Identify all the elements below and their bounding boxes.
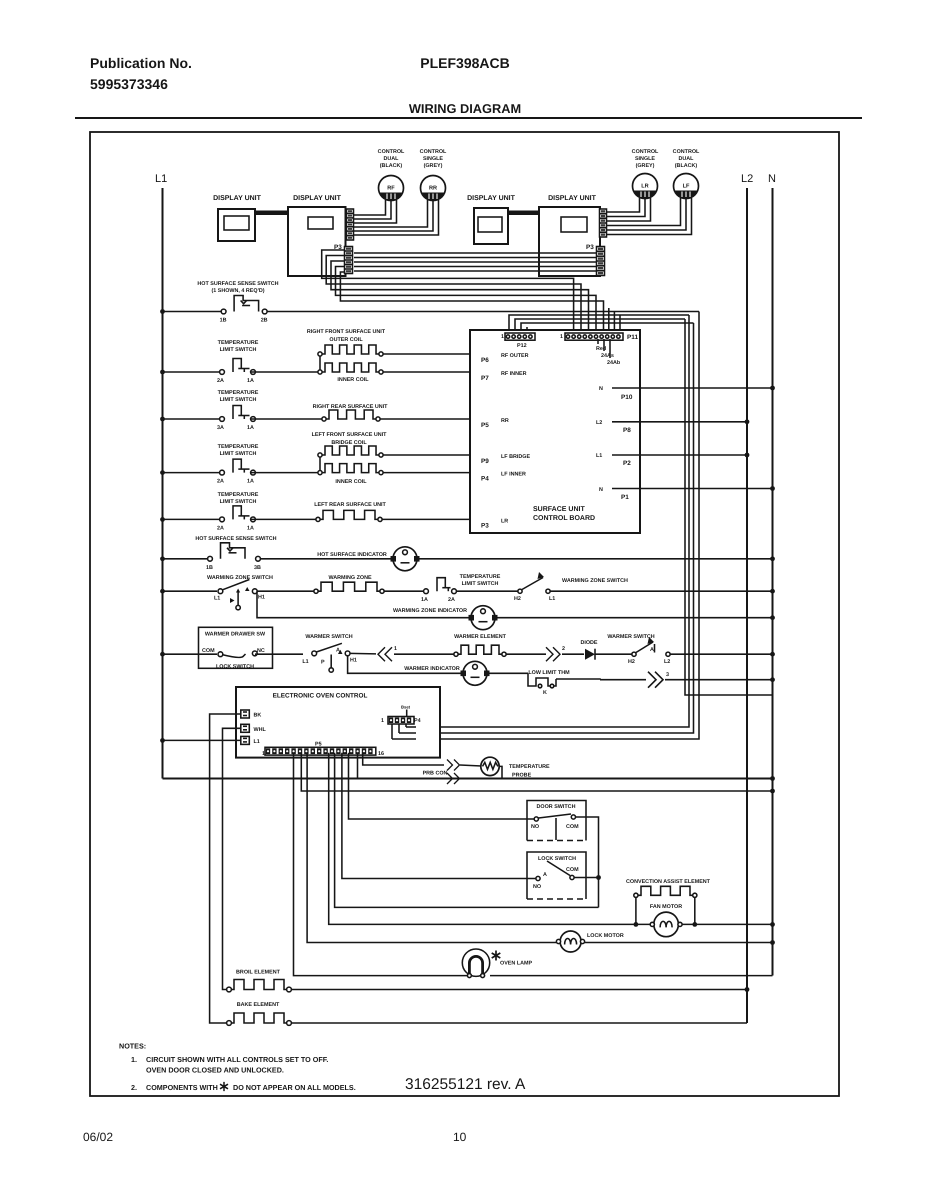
svg-text:PRB CON: PRB CON	[423, 771, 448, 777]
svg-text:L2: L2	[664, 659, 670, 665]
svg-text:(BLACK): (BLACK)	[675, 163, 698, 169]
svg-text:H1: H1	[350, 658, 357, 664]
svg-text:A: A	[650, 647, 654, 653]
svg-text:LF INNER: LF INNER	[501, 472, 526, 478]
svg-text:CONTROL BOARD: CONTROL BOARD	[533, 515, 595, 522]
svg-text:3B: 3B	[254, 565, 261, 571]
svg-text:Publication No.: Publication No.	[90, 55, 192, 71]
svg-text:WARMING ZONE SWITCH: WARMING ZONE SWITCH	[562, 578, 628, 584]
svg-text:NO: NO	[531, 824, 539, 830]
svg-text:NO: NO	[533, 884, 541, 890]
svg-text:P4: P4	[481, 476, 489, 483]
svg-text:2: 2	[562, 646, 565, 652]
svg-text:K: K	[543, 690, 547, 696]
svg-text:N: N	[768, 173, 776, 185]
svg-text:DUAL: DUAL	[679, 156, 695, 162]
svg-text:P11: P11	[627, 334, 638, 341]
svg-text:RF INNER: RF INNER	[501, 371, 527, 377]
svg-text:LR: LR	[501, 518, 508, 524]
svg-text:WARMER SWITCH: WARMER SWITCH	[305, 634, 352, 640]
svg-text:RIGHT REAR SURFACE UNIT: RIGHT REAR SURFACE UNIT	[313, 404, 389, 410]
svg-text:H2: H2	[628, 659, 635, 665]
svg-text:LIMIT SWITCH: LIMIT SWITCH	[462, 581, 499, 587]
svg-text:LR: LR	[641, 184, 648, 190]
svg-text:HOT SURFACE INDICATOR: HOT SURFACE INDICATOR	[317, 552, 387, 558]
svg-text:P8: P8	[623, 427, 631, 434]
svg-text:(1 SHOWN, 4 REQ'D): (1 SHOWN, 4 REQ'D)	[211, 288, 264, 294]
svg-text:BROIL ELEMENT: BROIL ELEMENT	[236, 970, 281, 976]
svg-text:INNER COIL: INNER COIL	[335, 479, 367, 485]
svg-text:P3: P3	[481, 522, 489, 529]
svg-text:L2: L2	[596, 420, 602, 426]
svg-text:P2: P2	[623, 460, 631, 467]
svg-text:SINGLE: SINGLE	[423, 156, 443, 162]
svg-text:WARMER DRAWER SW: WARMER DRAWER SW	[205, 632, 266, 638]
svg-text:BK: BK	[254, 713, 262, 719]
svg-text:TEMPERATURE: TEMPERATURE	[218, 390, 259, 396]
svg-text:H2: H2	[514, 596, 521, 602]
svg-text:L1: L1	[214, 596, 220, 602]
svg-text:1: 1	[262, 751, 265, 757]
svg-text:NOTES:: NOTES:	[119, 1042, 146, 1051]
svg-text:1A: 1A	[247, 425, 254, 431]
svg-text:L1: L1	[549, 596, 555, 602]
svg-text:1A: 1A	[247, 479, 254, 485]
svg-text:CONTROL: CONTROL	[378, 149, 405, 155]
svg-text:BAKE ELEMENT: BAKE ELEMENT	[237, 1002, 280, 1008]
svg-text:BRIDGE COIL: BRIDGE COIL	[331, 440, 367, 446]
svg-text:P3: P3	[586, 244, 594, 251]
svg-text:L1: L1	[254, 739, 260, 745]
svg-text:P9: P9	[481, 458, 489, 465]
svg-text:HOT SURFACE SENSE SWITCH: HOT SURFACE SENSE SWITCH	[195, 536, 276, 542]
svg-text:TEMPERATURE: TEMPERATURE	[218, 492, 259, 498]
svg-text:WARMER ELEMENT: WARMER ELEMENT	[454, 634, 507, 640]
svg-text:2B: 2B	[261, 318, 268, 324]
svg-text:LF: LF	[683, 184, 690, 190]
svg-text:WARMER SWITCH: WARMER SWITCH	[607, 634, 654, 640]
svg-text:24Ab: 24Ab	[607, 360, 621, 366]
svg-text:TEMPERATURE: TEMPERATURE	[460, 574, 501, 580]
svg-text:P12: P12	[517, 343, 527, 349]
svg-text:TEMPERATURE: TEMPERATURE	[509, 764, 550, 770]
svg-text:3: 3	[666, 672, 669, 678]
svg-text:LEFT REAR SURFACE UNIT: LEFT REAR SURFACE UNIT	[314, 502, 386, 508]
svg-text:16: 16	[378, 751, 384, 757]
svg-text:P7: P7	[481, 375, 489, 382]
svg-text:DISPLAY UNIT: DISPLAY UNIT	[293, 195, 342, 202]
svg-text:P1: P1	[621, 494, 629, 501]
svg-text:RIGHT FRONT SURFACE UNIT: RIGHT FRONT SURFACE UNIT	[307, 329, 386, 335]
svg-text:P4: P4	[414, 718, 421, 724]
svg-text:L2: L2	[741, 173, 753, 185]
svg-text:RR: RR	[501, 418, 509, 424]
svg-text:Bset: Bset	[401, 705, 411, 710]
svg-text:DO NOT APPEAR ON ALL MODELS.: DO NOT APPEAR ON ALL MODELS.	[233, 1083, 356, 1092]
svg-text:WARMING ZONE: WARMING ZONE	[328, 575, 372, 581]
svg-text:OVEN LAMP: OVEN LAMP	[500, 961, 532, 967]
svg-text:2A: 2A	[217, 525, 224, 531]
svg-text:5995373346: 5995373346	[90, 76, 168, 92]
svg-text:CONTROL: CONTROL	[420, 149, 447, 155]
svg-text:WIRING DIAGRAM: WIRING DIAGRAM	[409, 101, 521, 116]
svg-text:INNER COIL: INNER COIL	[337, 377, 369, 383]
svg-text:1A: 1A	[247, 525, 254, 531]
svg-text:24As: 24As	[601, 353, 614, 359]
svg-text:1.: 1.	[131, 1055, 137, 1064]
svg-text:P: P	[321, 660, 325, 666]
svg-text:FAN MOTOR: FAN MOTOR	[650, 904, 682, 910]
svg-text:P10: P10	[621, 394, 633, 401]
svg-text:CONVECTION ASSIST ELEMENT: CONVECTION ASSIST ELEMENT	[626, 879, 711, 885]
svg-text:NC: NC	[257, 648, 265, 654]
svg-text:LIMIT SWITCH: LIMIT SWITCH	[220, 397, 257, 403]
svg-text:WARMER INDICATOR: WARMER INDICATOR	[404, 666, 460, 672]
svg-text:H1: H1	[258, 595, 265, 601]
svg-text:1B: 1B	[220, 318, 227, 324]
svg-text:DUAL: DUAL	[384, 156, 400, 162]
svg-text:(BLACK): (BLACK)	[380, 163, 403, 169]
svg-text:CIRCUIT SHOWN WITH ALL CONTROL: CIRCUIT SHOWN WITH ALL CONTROLS SET TO O…	[146, 1055, 328, 1064]
svg-text:RF OUTER: RF OUTER	[501, 353, 529, 359]
svg-text:TEMPERATURE: TEMPERATURE	[218, 444, 259, 450]
svg-text:LOCK SWITCH: LOCK SWITCH	[538, 856, 576, 862]
svg-text:WARMING ZONE INDICATOR: WARMING ZONE INDICATOR	[393, 608, 467, 614]
svg-text:2A: 2A	[217, 479, 224, 485]
svg-text:OUTER COIL: OUTER COIL	[329, 337, 363, 343]
svg-text:CONTROL: CONTROL	[673, 149, 700, 155]
svg-text:(GREY): (GREY)	[636, 163, 655, 169]
svg-text:1: 1	[501, 334, 504, 340]
svg-text:2A: 2A	[217, 378, 224, 384]
svg-text:A: A	[543, 872, 547, 878]
svg-text:DIODE: DIODE	[580, 640, 597, 646]
svg-text:HOT SURFACE SENSE SWITCH: HOT SURFACE SENSE SWITCH	[197, 281, 278, 287]
svg-text:COM: COM	[202, 648, 215, 654]
svg-text:WHL: WHL	[254, 727, 267, 733]
svg-text:P5: P5	[481, 422, 489, 429]
svg-text:1A: 1A	[421, 597, 428, 603]
svg-text:1: 1	[381, 718, 384, 724]
svg-text:PLEF398ACB: PLEF398ACB	[420, 55, 509, 71]
svg-text:06/02: 06/02	[83, 1130, 113, 1144]
svg-text:L1: L1	[155, 173, 167, 185]
svg-text:316255121 rev. A: 316255121 rev. A	[405, 1076, 526, 1093]
svg-text:P6: P6	[481, 357, 489, 364]
svg-text:SURFACE UNIT: SURFACE UNIT	[533, 506, 585, 513]
svg-text:1: 1	[560, 334, 563, 340]
svg-text:LOCK SWITCH: LOCK SWITCH	[216, 664, 254, 670]
svg-text:COMPONENTS WITH: COMPONENTS WITH	[146, 1083, 218, 1092]
svg-text:LOCK MOTOR: LOCK MOTOR	[587, 933, 624, 939]
svg-text:1A: 1A	[247, 378, 254, 384]
svg-text:L1: L1	[302, 659, 308, 665]
svg-text:1: 1	[394, 646, 397, 652]
svg-text:LF BRIDGE: LF BRIDGE	[501, 454, 530, 460]
svg-text:DISPLAY UNIT: DISPLAY UNIT	[548, 195, 597, 202]
svg-text:ELECTRONIC OVEN CONTROL: ELECTRONIC OVEN CONTROL	[273, 693, 368, 700]
svg-text:COM: COM	[566, 824, 579, 830]
svg-text:A: A	[336, 648, 340, 654]
svg-text:1B: 1B	[206, 565, 213, 571]
svg-text:LOW LIMIT THM: LOW LIMIT THM	[528, 670, 570, 676]
svg-text:SINGLE: SINGLE	[635, 156, 655, 162]
svg-text:LEFT FRONT SURFACE UNIT: LEFT FRONT SURFACE UNIT	[312, 432, 388, 438]
svg-text:10: 10	[453, 1130, 467, 1144]
svg-text:3A: 3A	[217, 425, 224, 431]
svg-text:PROBE: PROBE	[512, 773, 532, 779]
svg-text:N: N	[599, 386, 603, 392]
svg-text:OVEN DOOR CLOSED AND UNLOCKED.: OVEN DOOR CLOSED AND UNLOCKED.	[146, 1066, 284, 1075]
svg-text:LIMIT SWITCH: LIMIT SWITCH	[220, 347, 257, 353]
svg-text:WARMING ZONE SWITCH: WARMING ZONE SWITCH	[207, 575, 273, 581]
svg-text:(GREY): (GREY)	[424, 163, 443, 169]
svg-text:LIMIT SWITCH: LIMIT SWITCH	[220, 451, 257, 457]
svg-text:DISPLAY UNIT: DISPLAY UNIT	[213, 195, 262, 202]
svg-text:N: N	[599, 487, 603, 493]
svg-text:2.: 2.	[131, 1083, 137, 1092]
svg-text:DISPLAY UNIT: DISPLAY UNIT	[467, 195, 516, 202]
svg-text:DOOR SWITCH: DOOR SWITCH	[537, 804, 576, 810]
svg-text:2A: 2A	[448, 597, 455, 603]
svg-text:TEMPERATURE: TEMPERATURE	[218, 340, 259, 346]
svg-text:CONTROL: CONTROL	[632, 149, 659, 155]
svg-text:L1: L1	[596, 453, 602, 459]
svg-text:RR: RR	[429, 186, 437, 192]
svg-text:RF: RF	[387, 186, 395, 192]
svg-text:LIMIT SWITCH: LIMIT SWITCH	[220, 499, 257, 505]
svg-text:COM: COM	[566, 867, 579, 873]
